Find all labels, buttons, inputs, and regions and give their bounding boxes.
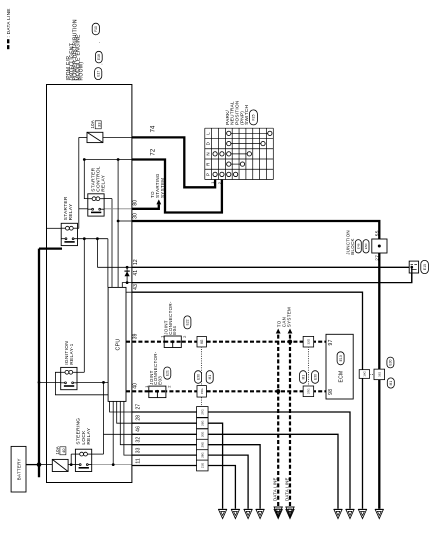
svg-text:,: , [99,63,103,64]
svg-text:L: L [206,132,211,135]
svg-text:27G: 27G [200,409,204,414]
svg-text:D: D [206,142,211,145]
svg-text:E22: E22 [186,319,190,325]
svg-text:97: 97 [328,339,334,345]
svg-text:LOCK: LOCK [81,430,87,445]
svg-text:R: R [206,162,211,165]
svg-text:12: 12 [133,259,139,265]
svg-text:F25: F25 [252,114,256,120]
svg-text:43: 43 [133,284,139,290]
svg-text:M1: M1 [208,375,212,380]
svg-text:32G: 32G [306,338,310,344]
svg-text:74: 74 [150,125,156,132]
svg-text:E03: E03 [157,376,162,385]
svg-text:CPU: CPU [115,339,121,351]
svg-text:16G: 16G [362,371,366,377]
svg-text:41: 41 [133,270,139,276]
svg-text:98: 98 [328,389,334,395]
svg-text:BATTERY: BATTERY [17,458,22,480]
svg-text:29G: 29G [200,442,204,447]
svg-text:E10: E10 [339,355,343,361]
svg-text:ECM: ECM [338,370,344,382]
svg-text:RELAY: RELAY [101,174,107,191]
svg-text:39: 39 [133,333,139,339]
svg-text:P: P [206,173,211,176]
svg-text:STEERING: STEERING [76,418,82,445]
svg-text:10A: 10A [55,445,60,454]
svg-text:SWITCH: SWITCH [244,105,249,125]
svg-text:21G: 21G [200,463,204,468]
svg-text:SYSTEM: SYSTEM [160,178,165,198]
svg-text:STARTER: STARTER [90,167,96,191]
svg-text:E18: E18 [97,54,101,60]
svg-text:40: 40 [61,448,66,453]
svg-text:CONTROL: CONTROL [96,166,102,192]
svg-text:33: 33 [96,122,101,127]
svg-text:E21: E21 [165,370,169,376]
svg-text:46: 46 [135,426,141,432]
svg-text:IGNITION: IGNITION [64,341,70,365]
svg-text:40: 40 [132,383,138,389]
svg-text:E17: E17 [96,70,100,76]
svg-text:11: 11 [135,458,141,464]
svg-text:33: 33 [135,447,141,453]
svg-text:27: 27 [135,404,141,410]
svg-text:SYSTEM: SYSTEM [287,307,292,327]
svg-text:E30: E30 [313,374,317,380]
svg-text:8G: 8G [200,339,204,344]
svg-text:72: 72 [150,148,156,155]
svg-text:M1: M1 [301,375,305,380]
svg-text:E15: E15 [423,264,427,270]
svg-text:10A: 10A [90,119,95,128]
svg-text:RELAY: RELAY [86,427,92,444]
svg-text:E50: E50 [364,243,368,249]
svg-text:STARTER: STARTER [63,196,69,220]
svg-text:26G: 26G [200,421,204,426]
svg-text:E04: E04 [172,326,177,335]
svg-text:15G: 15G [200,388,204,394]
svg-text:N: N [206,152,211,155]
svg-text:37G: 37G [306,388,310,394]
svg-text:E30: E30 [196,374,200,380]
svg-text:32: 32 [135,437,141,443]
svg-text:E46: E46 [356,243,360,249]
svg-text:BLOCK: BLOCK [350,238,355,254]
svg-text:27: 27 [375,255,381,261]
svg-text:80: 80 [132,200,138,206]
svg-text:28: 28 [135,415,141,421]
svg-text:33S: 33S [377,372,381,377]
svg-text:ROOM): ROOM) [78,62,84,81]
svg-text:30: 30 [132,213,138,219]
svg-text:RELAY: RELAY [68,203,74,220]
svg-text:DATA LINE: DATA LINE [284,477,289,501]
svg-text:,: , [96,42,100,43]
svg-text:RELAY-1: RELAY-1 [69,343,75,364]
svg-text:M1: M1 [389,381,393,386]
svg-text:20G: 20G [200,432,204,437]
svg-text:F10: F10 [94,26,98,32]
svg-text:28G: 28G [200,452,204,457]
svg-text:: DATA LINE: : DATA LINE [6,8,12,37]
svg-text:E30: E30 [389,359,393,365]
svg-text:55: 55 [375,230,381,236]
svg-text:DATA LINE: DATA LINE [273,477,278,501]
